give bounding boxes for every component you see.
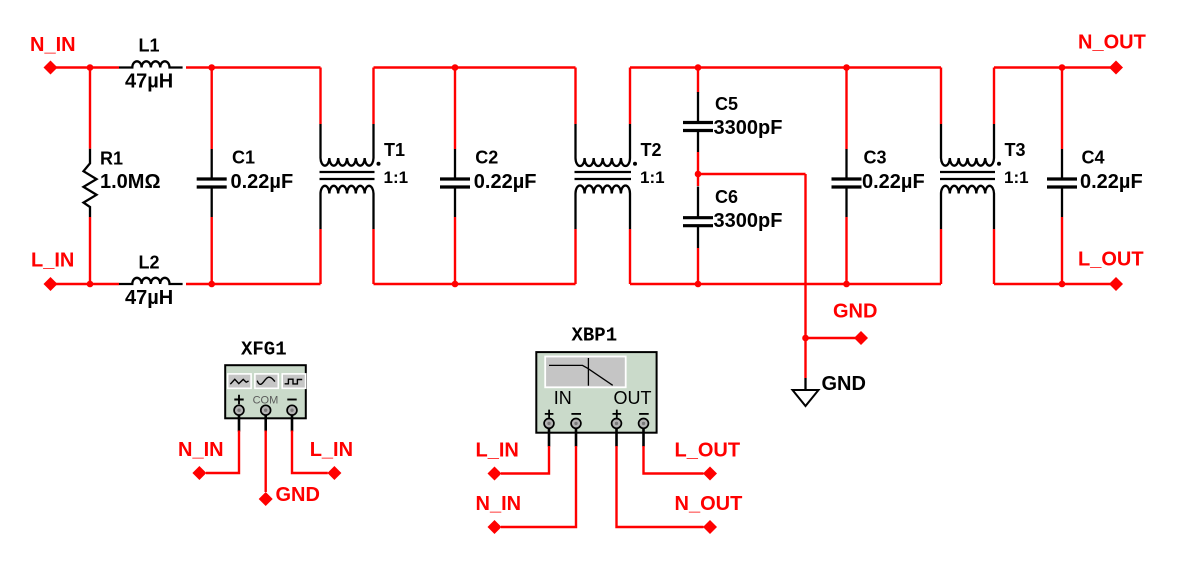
svg-text:XFG1: XFG1 xyxy=(241,338,287,360)
phase dot of T2 xyxy=(633,162,637,166)
instrument XBP1 (bode plotter) xyxy=(536,352,656,433)
wire T3 left leads xyxy=(940,68,942,285)
junction bottom rail x=846.5 xyxy=(843,281,850,288)
connector N_IN (top left) xyxy=(44,61,58,75)
connector N_IN (XBP1) xyxy=(488,520,502,534)
svg-text:1:1: 1:1 xyxy=(1004,168,1029,187)
connector GND (XFG1) xyxy=(259,492,273,506)
svg-text:47µH: 47µH xyxy=(125,287,173,309)
XFG1 terminal stub COM xyxy=(264,412,267,432)
svg-text:XBP1: XBP1 xyxy=(572,324,618,346)
wire C4 column xyxy=(1061,68,1063,285)
wire top rail segment: T3 to N_OUT xyxy=(994,66,1116,68)
connector L_IN (XBP1) xyxy=(488,467,502,481)
svg-text:N_IN: N_IN xyxy=(30,34,76,56)
junction top rail x=90 xyxy=(87,64,94,71)
XFG1 square wave button xyxy=(282,374,305,388)
XBP1 OUT+ mark xyxy=(613,410,622,419)
svg-text:1.0MΩ: 1.0MΩ xyxy=(100,171,161,193)
junction top rail x=846.5 xyxy=(843,64,850,71)
svg-text:GND: GND xyxy=(833,301,877,323)
svg-text:R1: R1 xyxy=(100,149,123,169)
svg-text:T3: T3 xyxy=(1005,140,1026,160)
wire XFG1 + to N_IN xyxy=(206,431,239,474)
junction top rail x=211.7 xyxy=(208,64,215,71)
wire C3 column xyxy=(845,68,847,285)
svg-text:N_OUT: N_OUT xyxy=(1078,32,1146,54)
wire top rail segment: T2 to T3 xyxy=(630,66,941,68)
transformer T3 (common-mode choke) xyxy=(940,124,995,229)
wire C5/C6 column xyxy=(697,68,699,285)
svg-text:L_IN: L_IN xyxy=(476,440,519,462)
connector GND near C6 xyxy=(854,331,868,345)
XBP1 terminal stub OUT+ xyxy=(615,425,618,447)
inductor L2 xyxy=(119,278,183,284)
svg-text:L1: L1 xyxy=(139,36,160,56)
phase dot of T3 xyxy=(997,162,1001,166)
XBP1 terminal OUT+ xyxy=(612,419,622,429)
svg-text:3300pF: 3300pF xyxy=(714,210,783,232)
XFG1 terminal + xyxy=(234,405,244,415)
wire T3 right leads xyxy=(993,68,995,285)
junction bottom rail x=455 xyxy=(452,281,459,288)
XBP1 IN- mark xyxy=(571,413,581,415)
wire XBP1 IN- to N_IN xyxy=(501,446,576,527)
wire XBP1 OUT+ to N_OUT xyxy=(617,446,704,527)
XBP1 IN+ mark xyxy=(545,410,554,419)
wire T1 left leads xyxy=(319,68,321,285)
wire T2 right leads xyxy=(629,68,631,285)
connector N_OUT (top right) xyxy=(1109,61,1123,75)
svg-text:GND: GND xyxy=(276,484,320,506)
wire top rail segment: N_IN to T1 xyxy=(51,66,321,68)
svg-text:N_OUT: N_OUT xyxy=(675,493,743,515)
svg-text:3300pF: 3300pF xyxy=(714,117,783,139)
svg-text:1:1: 1:1 xyxy=(640,168,665,187)
svg-text:C4: C4 xyxy=(1082,148,1105,168)
connector N_OUT (XBP1) xyxy=(703,520,717,534)
phase dot of T1 xyxy=(377,162,381,166)
XFG1 terminal - xyxy=(287,405,297,415)
XBP1 display screen xyxy=(545,357,626,388)
svg-text:N_IN: N_IN xyxy=(476,493,522,515)
connector L_OUT (XBP1) xyxy=(703,467,717,481)
XFG1 plus terminal label xyxy=(234,395,243,404)
svg-text:T1: T1 xyxy=(384,140,405,160)
XFG1 terminal COM xyxy=(261,405,271,415)
wire bottom rail segment: T2 to T3 xyxy=(630,283,941,285)
capacitor C3 xyxy=(832,149,862,217)
svg-text:C3: C3 xyxy=(864,148,887,168)
instrument XFG1 (function generator) xyxy=(225,365,306,418)
capacitor C2 xyxy=(440,149,470,217)
XBP1 terminal stub IN- xyxy=(575,425,578,447)
junction bottom rail x=211.7 xyxy=(208,281,215,288)
junction top rail x=698 xyxy=(695,64,702,71)
svg-text:0.22µF: 0.22µF xyxy=(1080,171,1143,193)
svg-text:1:1: 1:1 xyxy=(384,168,409,187)
svg-text:C5: C5 xyxy=(715,94,738,114)
svg-text:C6: C6 xyxy=(715,187,738,207)
svg-text:L_OUT: L_OUT xyxy=(675,440,741,462)
wire T2 left leads xyxy=(574,68,576,285)
XFG1 terminal stub - xyxy=(291,412,294,432)
wire bottom rail segment: T3 to L_OUT xyxy=(994,283,1116,285)
wire bottom rail segment: T1 to T2 xyxy=(374,283,576,285)
svg-text:0.22µF: 0.22µF xyxy=(231,171,294,193)
transformer T1 (common-mode choke) xyxy=(320,124,375,229)
svg-text:C1: C1 xyxy=(232,148,255,168)
svg-text:L_OUT: L_OUT xyxy=(1078,249,1144,271)
wire XFG1 COM to GND xyxy=(265,431,267,493)
wire top rail segment: T1 to T2 xyxy=(374,66,576,68)
junction bottom rail x=90 xyxy=(87,281,94,288)
XBP1 terminal stub OUT- xyxy=(642,425,645,447)
wire T1 right leads xyxy=(372,68,374,285)
junction C5/C6 midpoint xyxy=(695,171,702,178)
svg-text:L_IN: L_IN xyxy=(31,250,74,272)
svg-text:C2: C2 xyxy=(475,148,498,168)
junction bottom rail x=698 xyxy=(695,281,702,288)
svg-text:0.22µF: 0.22µF xyxy=(862,171,925,193)
svg-text:GND: GND xyxy=(822,373,866,395)
svg-text:IN: IN xyxy=(554,388,572,408)
wire XBP1 IN+ to L_IN xyxy=(501,446,549,474)
ground lead xyxy=(804,378,806,390)
wire to GND net xyxy=(698,174,861,378)
transformer T2 (common-mode choke) xyxy=(575,124,632,229)
XBP1 OUT- mark xyxy=(639,413,649,415)
XFG1 sine wave button xyxy=(228,374,251,388)
wire R1 column xyxy=(89,68,91,285)
wire bottom rail segment: L_IN to T1 xyxy=(51,283,321,285)
connector N_IN (XFG1) xyxy=(192,466,206,480)
svg-text:L2: L2 xyxy=(139,253,160,273)
connector L_OUT (bottom right) xyxy=(1109,277,1123,291)
junction bottom rail x=1062 xyxy=(1059,281,1066,288)
svg-text:0.22µF: 0.22µF xyxy=(474,171,537,193)
svg-text:47µH: 47µH xyxy=(125,71,173,93)
inductor L1 xyxy=(119,61,183,67)
connector L_IN (XFG1) xyxy=(327,466,341,480)
wire C2 column xyxy=(454,68,456,285)
svg-text:OUT: OUT xyxy=(614,388,652,408)
XBP1 terminal IN- xyxy=(571,419,581,429)
XFG1 terminal stub + xyxy=(238,412,241,432)
junction top rail x=1062 xyxy=(1059,64,1066,71)
XBP1 terminal IN+ xyxy=(544,419,554,429)
svg-text:L_IN: L_IN xyxy=(310,439,353,461)
wire XBP1 OUT- to L_OUT xyxy=(644,446,704,474)
connector L_IN (bottom left) xyxy=(44,277,58,291)
capacitor C1 xyxy=(197,149,227,217)
XBP1 terminal OUT- xyxy=(639,419,649,429)
svg-text:T2: T2 xyxy=(641,140,662,160)
capacitor C6 xyxy=(683,187,713,249)
ground symbol xyxy=(793,390,819,406)
junction GND branch xyxy=(802,335,809,342)
XBP1 terminal stub IN+ xyxy=(548,425,551,447)
capacitor C4 xyxy=(1047,149,1077,217)
svg-text:N_IN: N_IN xyxy=(178,439,224,461)
wire C1 column xyxy=(210,68,212,285)
wire XFG1 - to L_IN xyxy=(292,431,328,474)
XFG1 minus terminal label xyxy=(287,399,296,401)
capacitor C5 xyxy=(683,92,713,152)
junction top rail x=455 xyxy=(452,64,459,71)
XFG1 triangle wave button xyxy=(255,374,278,388)
resistor R1 xyxy=(84,149,97,217)
